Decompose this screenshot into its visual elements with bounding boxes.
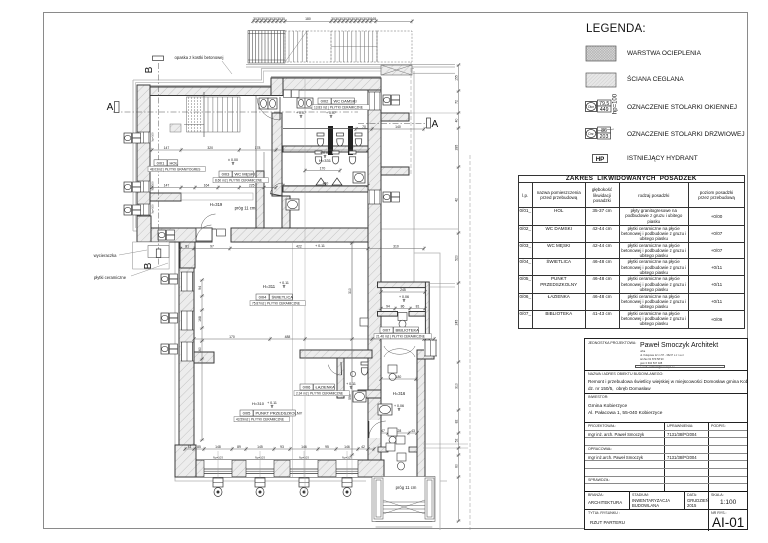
dim on section line: [354, 125, 425, 131]
level mark +0.11 punkt: [267, 401, 277, 408]
svg-text:95: 95: [325, 445, 329, 449]
svg-text:93: 93: [280, 445, 284, 449]
title block: [584, 338, 748, 530]
level mark 0.00: [228, 158, 238, 165]
toilet stall 1: [317, 133, 324, 146]
interior staircase in HOL: [184, 92, 240, 137]
window bottom wall 2: [246, 451, 274, 497]
svg-text:70: 70: [362, 125, 366, 129]
landing edge: [246, 64, 455, 66]
window designator right 2: [383, 192, 400, 202]
urinal 1: [316, 178, 326, 185]
svg-text:160: 160: [198, 347, 202, 353]
exterior stair balustrade top-left: [248, 31, 285, 64]
entrance B door: [196, 225, 212, 241]
interior wall WC meski south: [283, 186, 368, 192]
svg-text:+ 0.11: + 0.11: [267, 401, 277, 405]
svg-text:245: 245: [454, 320, 458, 326]
stall front wall: [283, 128, 368, 130]
svg-text:449: 449: [600, 107, 609, 113]
svg-text:47: 47: [381, 429, 385, 433]
window bottom wall 3: [290, 451, 318, 497]
exterior wall top step segment: [271, 78, 283, 96]
window right wall 1: [368, 92, 381, 110]
entrance B porch: [133, 242, 170, 269]
dim chain bottom interior: [183, 445, 375, 451]
extension line a: [423, 443, 468, 445]
svg-text:180: 180: [305, 17, 311, 21]
room label 0/06 LAZIENKA: [294, 384, 349, 396]
washbasin WC damski 3: [297, 98, 305, 108]
dim biblioteka inner: [379, 304, 426, 310]
svg-text:0/07: 0/07: [383, 328, 392, 333]
window designator bottom 3: [299, 478, 309, 497]
svg-text:48.03m2 | PŁYTKI GRANITOGRES: 48.03m2 | PŁYTKI GRANITOGRES: [150, 167, 200, 171]
axis line vertical swietlica: [292, 242, 294, 477]
window designator left lower 0: [158, 230, 175, 240]
door designator biblioteka: [398, 313, 407, 321]
terrace edge line east: [381, 228, 458, 230]
svg-text:147: 147: [164, 146, 170, 150]
interior wall corridor south: [282, 196, 290, 228]
wall stub swietlica west: [194, 352, 214, 363]
room label 0/07 BIBLIOTEKA: [374, 327, 431, 339]
svg-text:HOL: HOL: [170, 160, 179, 165]
interior wall swietlica/lazienka: [300, 350, 372, 358]
toilet meski 1: [315, 151, 322, 164]
wall stub HOL west: [150, 193, 181, 201]
urinal 2: [332, 178, 342, 185]
svg-text:płytki ceramiczne: płytki ceramiczne: [94, 275, 127, 280]
window bottom wall 1: [204, 451, 232, 497]
svg-text:+ 0.11: + 0.11: [315, 244, 325, 248]
door jamb corridor right: [409, 447, 417, 452]
svg-text:440: 440: [323, 181, 329, 185]
washbasin WC damski 2: [268, 98, 277, 109]
svg-text:43.59m2 | PŁYTKI CERAMICZNE: 43.59m2 | PŁYTKI CERAMICZNE: [236, 418, 284, 422]
svg-text:8.60 m2 | PŁYTKI CERAMICZNE: 8.60 m2 | PŁYTKI CERAMICZNE: [215, 179, 262, 183]
outer edge line top-left: [140, 85, 271, 87]
svg-text:wycieraczka: wycieraczka: [94, 253, 117, 258]
exterior wall bottom: [179, 460, 384, 477]
level mark +0.07 wc: [320, 151, 330, 158]
svg-text:0/03: 0/03: [222, 172, 231, 177]
stair dashed extension: [377, 31, 412, 62]
dim chain inside swietlica: [348, 241, 354, 456]
dim chain right outer: [454, 63, 460, 522]
svg-text:H=331: H=331: [319, 158, 332, 163]
exterior stair treads lower flight: [331, 31, 377, 62]
svg-text:145: 145: [257, 445, 263, 449]
leader plytki: [131, 263, 168, 276]
washbasin hall: [353, 391, 366, 402]
svg-text:WC MĘSKI: WC MĘSKI: [235, 172, 255, 177]
svg-text:+ 0.07: + 0.07: [326, 111, 336, 115]
svg-text:42: 42: [454, 198, 458, 202]
svg-text:146: 146: [344, 445, 350, 449]
door designator corridor 1: [388, 365, 397, 373]
svg-text:148: 148: [215, 445, 221, 449]
exterior stairs bottom right: [372, 477, 435, 528]
axis line vertical right: [351, 242, 353, 475]
svg-text:81: 81: [416, 304, 420, 308]
svg-text:422: 422: [296, 244, 302, 248]
corridor east wall: [417, 358, 425, 477]
biblioteka partition west: [378, 312, 398, 317]
outer edge line top-right: [271, 76, 381, 78]
legend window designator symbol: [586, 93, 619, 114]
door jamb corridor left: [378, 447, 388, 452]
svg-text:30: 30: [281, 17, 285, 21]
svg-text:+ 0.06: + 0.06: [394, 404, 404, 408]
washbasin WC damski 4: [305, 98, 313, 108]
svg-text:140: 140: [395, 125, 401, 129]
room label 0/01 HOL: [148, 160, 205, 172]
svg-text:320: 320: [207, 146, 213, 150]
opaska inner line: [136, 71, 412, 228]
section marker B top: [144, 56, 164, 73]
section marker B bottom: [143, 249, 161, 269]
svg-text:A: A: [432, 119, 439, 130]
wall jog biblioteka SE: [417, 350, 434, 359]
svg-text:310: 310: [393, 244, 399, 248]
stair landing: [307, 31, 331, 62]
interior wall corridor/WC: [256, 171, 264, 228]
svg-text:Okn: Okn: [588, 105, 594, 109]
svg-text:próg 11 cm: próg 11 cm: [396, 485, 417, 490]
door swietlica-corridor: [369, 421, 386, 438]
interior wall HOL south: [151, 228, 212, 242]
window left wall 1: [137, 132, 150, 143]
window left lower 1: [181, 272, 194, 291]
svg-text:85: 85: [197, 445, 201, 449]
corner wall HOL south-west: [137, 216, 151, 242]
extension line stub A: [409, 112, 458, 114]
svg-text:Np=103: Np=103: [255, 456, 265, 460]
section line A-A: [113, 112, 425, 124]
svg-text:2.34 m2 | PŁYTKI CERAMICZNE: 2.34 m2 | PŁYTKI CERAMICZNE: [296, 392, 343, 396]
door opening east wall: [369, 420, 380, 438]
dim biblioteka width: [379, 288, 426, 294]
cistern boxes WC damski: [284, 90, 292, 98]
room label 0/04 SWIETLICA: [250, 294, 305, 306]
double door biblioteka: [384, 349, 415, 357]
wall line corridor/WC upper: [255, 96, 257, 172]
svg-text:178: 178: [255, 146, 261, 150]
svg-text:170: 170: [229, 335, 235, 339]
leader line: [222, 61, 232, 74]
interior wall WC damski/meski: [283, 146, 368, 152]
interior wall swietlica north: [231, 228, 368, 242]
door designator corridor 3: [386, 443, 395, 451]
dim chain middle: [192, 335, 435, 341]
svg-text:79,5: 79,5: [599, 101, 609, 107]
level mark +0.07 damski 2: [326, 111, 336, 118]
svg-text:225: 225: [249, 183, 255, 187]
axis line vertical center: [304, 78, 306, 494]
window designator bottom 1: [213, 478, 223, 497]
legend hydrant symbol: [593, 155, 608, 164]
svg-text:PUNKT PRZEDSZKOLNY: PUNKT PRZEDSZKOLNY: [256, 411, 303, 416]
svg-text:HP: HP: [596, 156, 605, 163]
window designator right 1: [383, 95, 400, 105]
wall line corridor/WC inner: [263, 152, 265, 172]
window left lower 3: [181, 342, 194, 361]
window designator left lower 1: [161, 274, 178, 284]
door lazienka: [328, 362, 341, 375]
svg-text:147: 147: [164, 183, 170, 187]
svg-text:± 0.00: ± 0.00: [228, 158, 238, 162]
svg-text:94: 94: [198, 286, 202, 290]
door jambs entrance B: [195, 229, 197, 242]
svg-text:94: 94: [386, 304, 390, 308]
svg-text:75.87m2 | PŁYTKI CERAMICZNE: 75.87m2 | PŁYTKI CERAMICZNE: [252, 302, 300, 306]
stall partition 2: [348, 126, 353, 155]
legend swatch warstwa ocieplenia: [586, 46, 616, 61]
svg-text:+ 0.06: + 0.06: [399, 295, 409, 299]
exterior wall left lower: [179, 242, 194, 477]
svg-text:H=319: H=319: [210, 202, 223, 207]
table zakres likwidowanych posadzek: [518, 175, 745, 329]
section line B-B: [158, 63, 160, 265]
exterior wall top-left segment: [140, 87, 271, 96]
door swietlica north: [201, 214, 216, 229]
washbasin corridor south: [378, 404, 392, 415]
svg-text:próg 11 cm: próg 11 cm: [235, 206, 256, 211]
level mark +0.06 biblioteka: [399, 295, 409, 302]
window designator left 2: [124, 182, 141, 192]
svg-text:41: 41: [188, 445, 192, 449]
room label 0/05 PUNKT PRZEDSZKOLNY: [234, 410, 303, 422]
lazienka south wall: [358, 390, 381, 398]
entrance B jamb: [180, 242, 195, 268]
room label 0/03 WC MESKI: [213, 171, 268, 183]
toilet stall 3: [355, 133, 362, 146]
top dimension chain: [251, 17, 413, 23]
section marker A left: [107, 102, 119, 114]
door designator corridor mid 1: [396, 436, 405, 444]
corner wall south-west: [175, 445, 196, 477]
opaska z kostki betonowej outline: [133, 69, 447, 531]
svg-text:82: 82: [454, 420, 458, 424]
svg-text:B: B: [144, 66, 155, 73]
svg-text:H=316: H=316: [393, 391, 406, 396]
lazienka west wall: [337, 358, 344, 398]
landing step left: [170, 124, 181, 132]
door designator entrance B: [217, 229, 226, 236]
section marker A right: [427, 118, 439, 130]
boundary dashed line upper right: [410, 62, 412, 175]
svg-text:ŚWIETLICA: ŚWIETLICA: [272, 295, 294, 300]
svg-text:60: 60: [454, 464, 458, 468]
window biblioteka east: [424, 340, 437, 356]
svg-text:0/02: 0/02: [321, 99, 330, 104]
svg-text:0/05: 0/05: [243, 411, 252, 416]
wycieraczka mat: [148, 246, 169, 258]
svg-text:0/04: 0/04: [259, 295, 268, 300]
svg-text:165: 165: [371, 17, 377, 21]
dim WC meski inner: [303, 166, 341, 172]
svg-text:43: 43: [411, 429, 415, 433]
svg-text:168: 168: [198, 316, 202, 322]
svg-text:H=310: H=310: [252, 401, 265, 406]
landing edge 2: [246, 66, 455, 68]
svg-text:89: 89: [237, 445, 241, 449]
svg-text:310: 310: [454, 383, 458, 389]
svg-text:ŁAZIENKA: ŁAZIENKA: [316, 385, 336, 390]
svg-text:86: 86: [401, 304, 405, 308]
svg-text:40: 40: [454, 119, 458, 123]
svg-text:42: 42: [361, 445, 365, 449]
door designator corridor 2: [388, 428, 397, 436]
svg-text:+ 0.07: + 0.07: [320, 151, 330, 155]
svg-text:97: 97: [210, 244, 214, 248]
side landing: [381, 65, 412, 75]
svg-text:0/06: 0/06: [303, 385, 312, 390]
exterior wall top-right segment: [283, 78, 381, 90]
svg-text:146: 146: [301, 445, 307, 449]
svg-text:155: 155: [454, 75, 458, 81]
svg-text:170: 170: [320, 166, 326, 170]
wall stub east B: [381, 167, 409, 175]
level mark +0.11 swietlica: [279, 281, 289, 288]
dim WC meski width: [281, 181, 369, 187]
level mark +0.11 lazienka: [346, 382, 356, 389]
exterior wall left upper: [137, 85, 150, 242]
svg-text:hp=100: hp=100: [613, 93, 619, 114]
window left wall 2: [137, 181, 150, 192]
window designator left 3: [124, 205, 141, 215]
svg-text:52: 52: [454, 439, 458, 443]
window left wall 3: [137, 204, 150, 215]
svg-text:+ 0.07: + 0.07: [296, 111, 306, 115]
radiator: [360, 318, 368, 326]
exterior wall right: [368, 90, 381, 475]
dim chain left lower inner: [198, 278, 204, 441]
svg-text:203: 203: [600, 134, 609, 140]
svg-text:BIBLIOTEKA: BIBLIOTEKA: [396, 328, 420, 333]
dim chain HOL lower: [150, 183, 277, 189]
svg-text:245: 245: [400, 288, 406, 292]
legend: [560, 13, 750, 15]
extension line b: [423, 447, 468, 449]
wing wall east: [425, 282, 429, 350]
washbasin WC damski 1: [259, 98, 268, 109]
svg-text:Np=103: Np=103: [213, 456, 223, 460]
window designator left lower 3: [161, 344, 178, 354]
svg-text:520: 520: [454, 255, 458, 261]
washbasin WC meski: [353, 172, 365, 183]
dim chain swietlica north: [179, 244, 426, 250]
wall stub east A: [381, 113, 409, 121]
svg-text:21.46 m2 | PŁYTKI CERAMICZNE: 21.46 m2 | PŁYTKI CERAMICZNE: [376, 335, 425, 339]
window designator left 1: [124, 133, 141, 143]
room label 0/02 WC DAMSKI: [312, 98, 369, 110]
svg-text:72: 72: [454, 100, 458, 104]
washbasin corridor: [286, 199, 299, 210]
dim corridor doorway: [376, 429, 418, 435]
dim chain HOL upper: [150, 146, 369, 152]
landing edge 3: [413, 72, 455, 74]
landing cross: [381, 65, 412, 75]
svg-text:81: 81: [185, 244, 189, 248]
svg-text:164: 164: [204, 183, 210, 187]
dim corridor width: [379, 375, 417, 381]
level mark +0.06 corridor: [394, 404, 404, 411]
svg-text:Drz: Drz: [588, 132, 594, 136]
door opening entrance B: [196, 228, 212, 241]
svg-text:285: 285: [454, 145, 458, 151]
svg-text:488: 488: [285, 335, 291, 339]
toilet stall 2: [337, 133, 344, 146]
toilet lazienka: [361, 362, 368, 375]
toilet meski 2: [332, 151, 339, 164]
door WC damski: [257, 97, 280, 120]
svg-text:Np=100: Np=100: [151, 204, 155, 214]
window left lower 2: [181, 311, 194, 330]
toilet meski 3: [349, 151, 356, 164]
stall partition 1: [328, 126, 333, 155]
svg-text:B: B: [143, 262, 154, 269]
window designator bottom 4: [342, 478, 352, 497]
window designator left lower 2: [161, 313, 178, 323]
door WC meski: [270, 183, 283, 196]
boundary dashed line right: [469, 155, 471, 530]
legend swatch sciana ceglana: [586, 73, 616, 87]
svg-text:WC DAMSKI: WC DAMSKI: [334, 99, 357, 104]
interior wall HOL/WC block: [272, 113, 282, 196]
svg-text:13.83 m2 | PŁYTKI CERAMICZNE: 13.83 m2 | PŁYTKI CERAMICZNE: [314, 106, 363, 110]
beam outline over corridor: [181, 193, 253, 200]
svg-text:180: 180: [396, 375, 402, 379]
extension lines wing top: [429, 283, 455, 285]
svg-text:opaska z kostki betonowej: opaska z kostki betonowej: [175, 55, 224, 60]
svg-text:0/01: 0/01: [157, 160, 166, 165]
svg-text:86: 86: [601, 128, 607, 134]
svg-text:Np=103: Np=103: [299, 456, 309, 460]
door designator corridor mid 2: [397, 453, 406, 461]
window bottom wall 4: [336, 451, 358, 497]
level mark +0.07 damski 1: [296, 111, 306, 118]
legend door designator symbol: [586, 127, 615, 140]
svg-text:310: 310: [348, 288, 352, 294]
svg-text:Np=100: Np=100: [151, 181, 155, 191]
svg-text:H=311: H=311: [263, 284, 276, 289]
svg-text:+ 0.11: + 0.11: [279, 281, 289, 285]
svg-text:Np=100: Np=100: [151, 132, 155, 142]
biblioteka partition east: [409, 312, 429, 317]
window designator bottom 2: [255, 478, 265, 497]
wing wall biblioteka north: [378, 282, 430, 288]
window right wall 2: [368, 190, 381, 204]
leader wycieraczka: [119, 250, 147, 255]
exterior stair treads upper flight: [285, 31, 307, 62]
sink lazienka: [350, 371, 355, 376]
svg-text:+ 0.11: + 0.11: [346, 382, 356, 386]
svg-text:A: A: [107, 102, 114, 113]
